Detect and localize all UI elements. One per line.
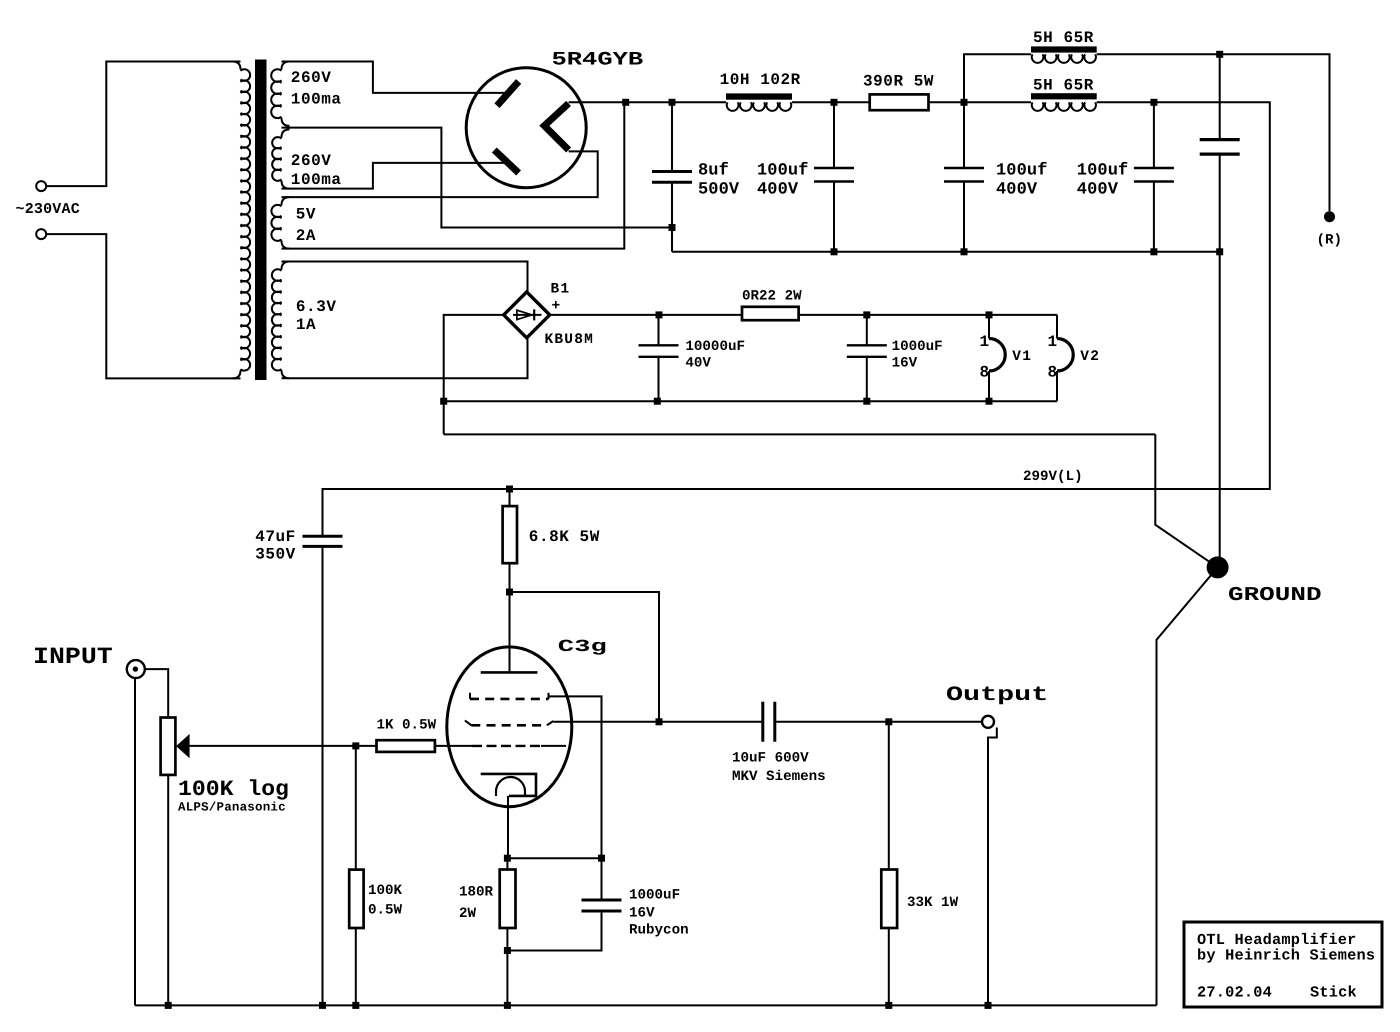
wire anode branch to output: [510, 592, 660, 722]
svg-text:KBU8M: KBU8M: [545, 332, 595, 348]
svg-text:Stick: Stick: [1310, 984, 1357, 1002]
svg-text:(R): (R): [1317, 233, 1343, 249]
svg-text:400V: 400V: [757, 181, 799, 200]
svg-text:GROUND: GROUND: [1228, 584, 1322, 606]
svg-text:10uF 600V: 10uF 600V: [732, 751, 809, 767]
svg-text:260V: 260V: [291, 69, 332, 87]
tube V4 grid g2: [470, 693, 549, 699]
svg-text:33K 1W: 33K 1W: [907, 895, 959, 911]
heater V2: [1056, 315, 1058, 402]
svg-text:C3g: C3g: [558, 638, 607, 657]
wire 5V top to filament: [282, 151, 598, 197]
heater V1: [988, 315, 990, 402]
resistor R6 180R 2W: [500, 870, 516, 929]
wire pot bottom to rail: [167, 775, 169, 1006]
wire 260V-2 bottom to plate 2: [282, 163, 508, 189]
svg-text:400V: 400V: [1077, 181, 1119, 200]
capacitor C10 10uF 600V coupling: [659, 721, 982, 723]
svg-text:by Heinrich Siemens: by Heinrich Siemens: [1197, 947, 1375, 965]
wire 6.8K bottom to anode: [509, 563, 511, 672]
svg-text:16V: 16V: [892, 356, 918, 372]
wire diagonal to ground: [1155, 434, 1217, 567]
wire right ground drop: [1219, 252, 1221, 568]
svg-text:1K 0.5W: 1K 0.5W: [377, 718, 437, 734]
wire center tap to B- rail: [282, 128, 673, 228]
wire 100K drop: [355, 746, 357, 870]
svg-text:ALPS/Panasonic: ALPS/Panasonic: [178, 801, 286, 815]
capacitor C2 100uf 400V: [833, 102, 835, 252]
rectifier tube V3 5R4GYB envelope: [466, 68, 586, 188]
svg-text:100ma: 100ma: [291, 91, 342, 109]
input jack: [127, 660, 145, 678]
wire 6.3V bottom to bridge AC2: [282, 338, 528, 379]
svg-text:Output: Output: [946, 684, 1048, 707]
svg-text:V2: V2: [1080, 349, 1100, 365]
wire B- rail: [672, 251, 1220, 253]
wire input to pot top: [145, 669, 168, 717]
wire 33K to rail: [888, 928, 890, 1005]
capacitor C9 1000uF 16V Rubycon: [507, 858, 601, 950]
choke L3 5H 65R winding: [1032, 102, 1096, 111]
svg-text:1: 1: [1048, 333, 1058, 351]
wire heater - rail: [444, 400, 1057, 402]
tube V4 grid g3: [465, 720, 553, 725]
wire g3 to output node: [553, 721, 659, 723]
wire 5H chokes takeoff: [964, 54, 1330, 211]
wire main B+ line and 299V(L) feed: [323, 102, 1270, 536]
svg-text:8: 8: [1048, 364, 1058, 382]
capacitor C8 47uF 350V: [303, 536, 343, 546]
transformer T1 primary winding: [233, 62, 251, 379]
capacitor C6 10000uF 40V: [658, 315, 660, 401]
wire g2 to cathode node: [549, 696, 602, 858]
svg-text:390R 5W: 390R 5W: [863, 73, 934, 91]
svg-text:100ma: 100ma: [291, 171, 342, 189]
svg-text:5H 65R: 5H 65R: [1033, 77, 1094, 95]
svg-text:0R22 2W: 0R22 2W: [742, 288, 802, 304]
resistor R7 33K 1W: [881, 870, 897, 929]
wire 260V-1 top to plate 1: [282, 62, 507, 93]
svg-text:16V: 16V: [629, 906, 655, 922]
svg-text:0.5W: 0.5W: [368, 903, 403, 919]
svg-text:V1: V1: [1012, 349, 1032, 365]
svg-text:5R4GYB: 5R4GYB: [552, 49, 644, 71]
terminal mains N: [36, 229, 46, 239]
wire mains L to primary top: [46, 62, 240, 187]
tube V4 heater arc: [496, 777, 525, 796]
wire 180R drop: [506, 858, 508, 869]
choke L2 5H 65R bar: [1031, 46, 1097, 52]
svg-text:2W: 2W: [459, 906, 477, 922]
svg-text:350V: 350V: [255, 546, 296, 564]
svg-text:~230VAC: ~230VAC: [16, 201, 80, 218]
svg-text:8uf: 8uf: [698, 162, 729, 181]
wire bridge + rail: [550, 314, 1057, 316]
svg-text:6.8K 5W: 6.8K 5W: [529, 528, 600, 546]
wire bottom ground rail: [135, 1004, 1157, 1006]
svg-text:+: +: [552, 299, 562, 315]
svg-text:10H 102R: 10H 102R: [720, 71, 801, 89]
svg-text:500V: 500V: [698, 181, 740, 200]
tube V4 anode: [481, 671, 538, 674]
wire output ground: [988, 728, 997, 1006]
svg-text:100K: 100K: [368, 883, 403, 899]
svg-text:100uf: 100uf: [757, 162, 809, 181]
wire wiper to grid: [189, 745, 376, 747]
potentiometer P1 100K log: [161, 718, 176, 775]
wire 5V bottom to B+ line: [282, 102, 625, 248]
tube V4 cathode: [481, 774, 536, 796]
wire 1K to g1: [435, 745, 472, 747]
resistor R3 6.8K 5W: [503, 506, 517, 563]
wire 100K to rail: [355, 928, 357, 1005]
resistor R1 390R 5W: [870, 94, 929, 110]
resistor R5 100K 0.5W: [349, 870, 363, 928]
svg-text:1: 1: [980, 333, 990, 351]
transformer T1 secondary 260V winding 2: [272, 129, 289, 188]
svg-text:1A: 1A: [296, 316, 316, 334]
capacitor C3 100uf 400V: [963, 102, 965, 252]
svg-text:100uf: 100uf: [996, 162, 1048, 181]
svg-text:Rubycon: Rubycon: [629, 923, 689, 939]
svg-text:8: 8: [980, 364, 990, 382]
wire 6.8K top: [509, 489, 511, 506]
choke L1 10H 102R winding: [727, 102, 791, 111]
svg-text:5H 65R: 5H 65R: [1033, 29, 1094, 47]
wire 180R to rail: [506, 928, 508, 1005]
wire mains N to primary bottom: [46, 234, 240, 378]
terminal (R) output: [1324, 211, 1335, 222]
svg-text:27.02.04: 27.02.04: [1197, 984, 1272, 1002]
svg-text:INPUT: INPUT: [33, 644, 113, 670]
svg-text:400V: 400V: [996, 181, 1038, 200]
output jack: [982, 716, 994, 728]
svg-text:180R: 180R: [459, 885, 494, 901]
resistor R4 1K 0.5W: [377, 740, 435, 752]
wire 33K drop: [888, 722, 890, 870]
title block frame: [1184, 922, 1382, 1007]
wire input ground: [134, 678, 136, 1005]
wire cathode lead: [507, 796, 509, 858]
svg-text:260V: 260V: [291, 152, 332, 170]
choke L3 5H 65R bar: [1031, 93, 1097, 99]
transformer T1 core: [255, 60, 267, 381]
capacitor C4 100uf 400V: [1153, 102, 1155, 252]
transformer T1 secondary 260V winding 1: [271, 62, 289, 126]
potentiometer P1 wiper arrow: [176, 734, 190, 758]
wire ground to bottom rail: [1157, 567, 1218, 1005]
svg-text:1000uF: 1000uF: [892, 339, 943, 355]
transformer T1 secondary 5V winding: [271, 197, 289, 249]
bridge rectifier B1 KBU8M: [504, 292, 550, 338]
wire heater ground link: [444, 433, 1156, 435]
svg-text:1000uF: 1000uF: [629, 888, 680, 904]
svg-text:40V: 40V: [685, 356, 711, 372]
transformer T1 secondary 6.3V winding: [272, 262, 290, 379]
capacitor C7 1000uF 16V: [866, 315, 868, 401]
capacitor C5 right channel: [1219, 54, 1221, 252]
svg-text:10000uF: 10000uF: [685, 339, 745, 355]
svg-text:MKV Siemens: MKV Siemens: [732, 769, 826, 785]
svg-text:100K log: 100K log: [178, 777, 289, 802]
wire 6.3V top to bridge AC1: [282, 262, 528, 293]
tube V4 C3g envelope: [447, 647, 572, 807]
choke L1 10H 102R bar: [726, 93, 792, 99]
tube V3 plate 2: [494, 150, 518, 173]
svg-text:2A: 2A: [296, 227, 316, 245]
wire 47uF below to bottom rail: [322, 546, 324, 1005]
tube V4 grid g1: [472, 745, 541, 747]
resistor R2 0R22 2W: [742, 307, 799, 320]
terminal mains L: [36, 181, 46, 191]
wire bridge - drop: [444, 315, 504, 435]
svg-text:6.3V: 6.3V: [296, 298, 337, 316]
svg-text:5V: 5V: [296, 206, 316, 224]
ground node dot: [1207, 556, 1229, 578]
tube V3 filament cathode: [544, 103, 568, 150]
svg-text:47uF: 47uF: [255, 528, 296, 546]
choke L2 5H 65R winding: [1032, 54, 1096, 63]
svg-text:299V(L): 299V(L): [1023, 469, 1083, 485]
svg-text:B1: B1: [551, 282, 571, 298]
svg-text:100uf: 100uf: [1077, 162, 1129, 181]
capacitor C1 8uf 500V: [671, 102, 673, 252]
tube V3 plate 1: [497, 81, 519, 105]
wire cathode link: [507, 857, 601, 859]
